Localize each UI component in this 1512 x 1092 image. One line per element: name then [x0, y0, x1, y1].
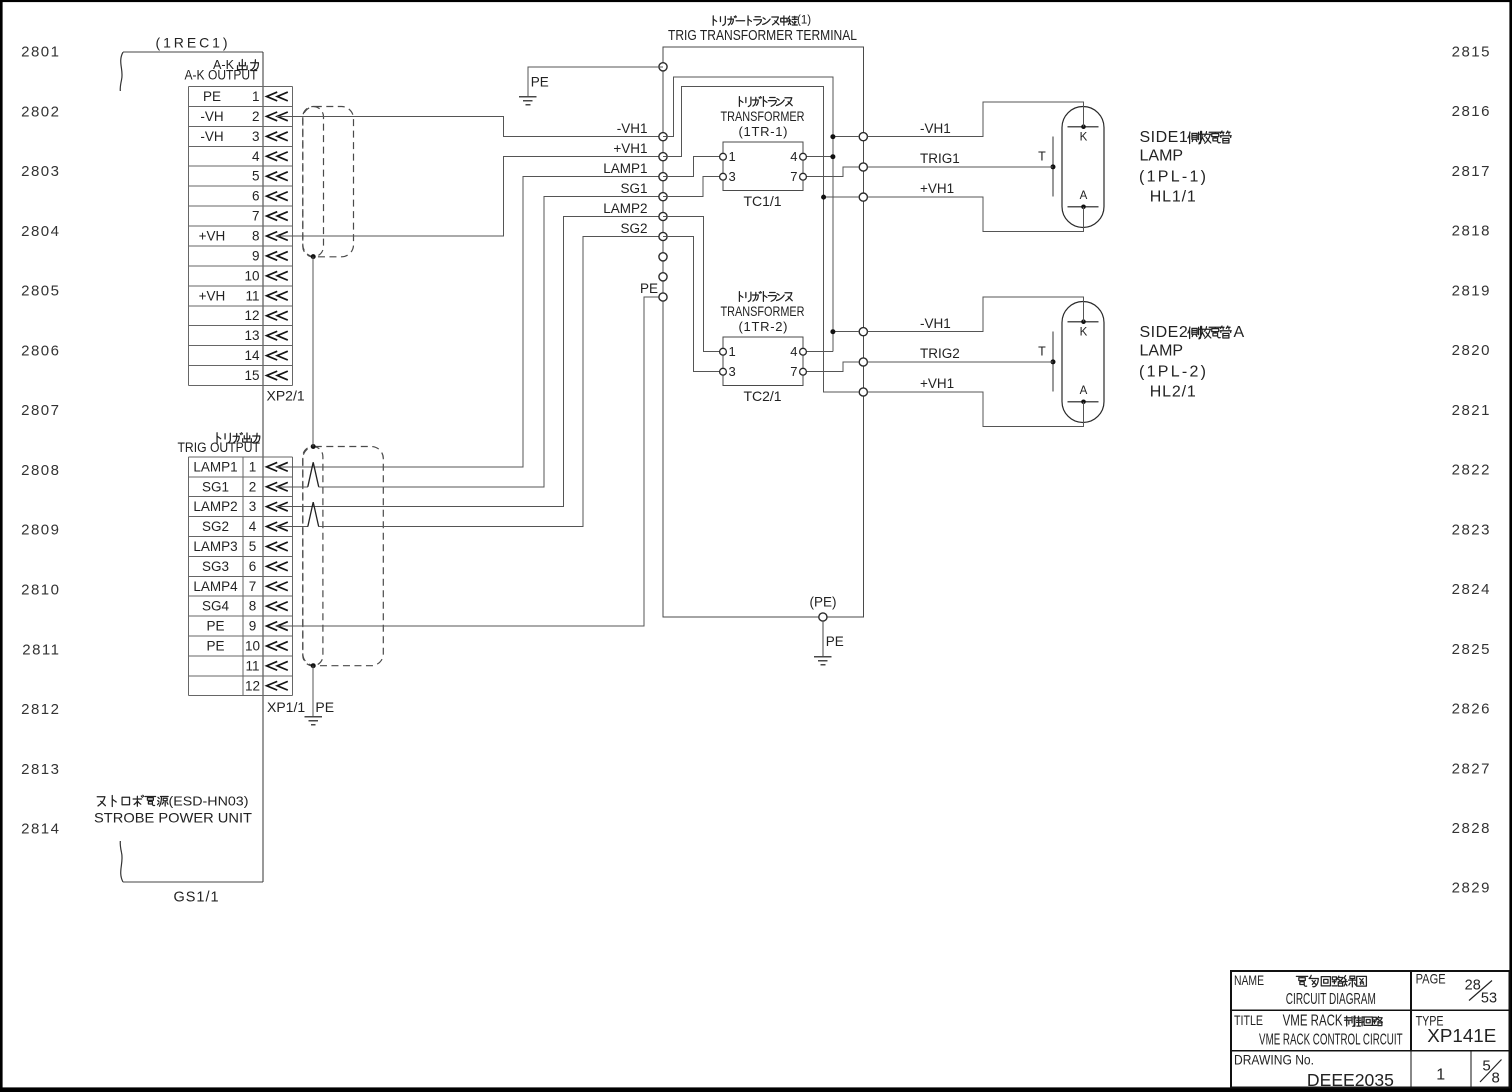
svg-text:2818: 2818	[1452, 223, 1491, 240]
wire TRIG1 (TC1 pin7 to terminal)	[807, 167, 860, 177]
svg-text:XP2/1: XP2/1	[267, 387, 305, 403]
svg-text:2804: 2804	[21, 223, 60, 240]
svg-text:11: 11	[245, 288, 259, 303]
svg-text:2802: 2802	[21, 103, 60, 120]
svg-text:LAMP2: LAMP2	[603, 201, 647, 216]
terminal SG1	[659, 193, 667, 201]
label: strobe power unit	[94, 794, 252, 906]
svg-text:T: T	[1038, 150, 1046, 164]
svg-text:PE: PE	[206, 638, 224, 653]
svg-text:2814: 2814	[21, 821, 60, 838]
wire +VH1 to lamp2 A	[867, 392, 1083, 427]
svg-text:2820: 2820	[1452, 342, 1491, 359]
svg-text:PAGE: PAGE	[1416, 971, 1446, 987]
terminal PE (lower)	[659, 293, 667, 301]
svg-text:9: 9	[249, 619, 257, 634]
wire shield drain	[312, 257, 314, 447]
transformer TC2/1 (1TR-2)	[721, 292, 805, 404]
transformer TC1/1 (1TR-1)	[721, 97, 805, 209]
svg-text:15: 15	[244, 368, 259, 383]
svg-text:2815: 2815	[1452, 44, 1491, 61]
wire TRIG2 (TC2 pin7 to terminal)	[807, 362, 860, 372]
terminal SG2	[659, 232, 667, 240]
junction -VH1/lamp1	[830, 134, 835, 139]
svg-text:SG4: SG4	[202, 599, 230, 614]
svg-text:PE: PE	[203, 89, 221, 104]
svg-text:+VH1: +VH1	[613, 141, 647, 156]
svg-text:(1TR-1): (1TR-1)	[739, 124, 788, 139]
svg-text:PE: PE	[315, 699, 334, 715]
label lamp2	[1139, 324, 1245, 400]
junction -VH1/lamp2	[830, 329, 835, 334]
terminal LAMP1	[659, 173, 667, 181]
svg-text:PE: PE	[206, 619, 224, 634]
svg-text:2826: 2826	[1452, 701, 1491, 718]
svg-text:TRIG OUTPUT: TRIG OUTPUT	[178, 440, 261, 455]
svg-text:XP1/1: XP1/1	[267, 699, 305, 715]
wire TRIG2 to lamp2 T	[867, 361, 1053, 363]
connector XP1/1 (TRIG OUTPUT)	[178, 433, 306, 715]
terminal block (TRIG TRANSFORMER TERMINAL)	[663, 15, 863, 617]
wire +VH1 to lamp1 A	[867, 197, 1083, 231]
pin 1 TC1	[720, 153, 727, 160]
svg-text:4: 4	[252, 149, 260, 164]
pin 3 TC2	[720, 368, 727, 375]
svg-text:STROBE POWER UNIT: STROBE POWER UNIT	[94, 810, 252, 826]
svg-text:TRIG1: TRIG1	[920, 151, 960, 166]
svg-text:(1PL-2): (1PL-2)	[1139, 363, 1206, 380]
terminal +VH1	[659, 153, 667, 161]
svg-text:A: A	[1080, 190, 1088, 202]
strobe power unit GS1/1 boundary (1REC1)	[120, 35, 263, 883]
svg-text:(1TR-2): (1TR-2)	[739, 319, 788, 334]
svg-text:2819: 2819	[1452, 282, 1491, 299]
svg-text:+VH: +VH	[199, 228, 226, 243]
svg-text:2812: 2812	[21, 701, 60, 718]
svg-text:LAMP3: LAMP3	[193, 539, 237, 554]
svg-text:11: 11	[245, 658, 259, 673]
cable shield W1 (XP2 cable)	[303, 107, 354, 260]
svg-text:VME RACK: VME RACK	[1283, 1013, 1343, 1030]
svg-text:TITLE: TITLE	[1234, 1012, 1263, 1028]
wire LAMP1 (XP1 pin1 to terminal)	[277, 177, 659, 467]
wire XP2 pin2 -VH to terminal	[277, 116, 659, 136]
svg-text:LAMP: LAMP	[1140, 343, 1184, 360]
wire LAMP2 (XP1 pin3 to terminal)	[277, 217, 659, 507]
wire XP2 pin8 +VH to terminal	[277, 157, 659, 236]
wire SG1 to TC1 pin3	[663, 177, 720, 197]
svg-text:2: 2	[249, 479, 257, 494]
svg-text:PE: PE	[531, 75, 549, 90]
terminal +VH1 right (lamp2)	[859, 388, 867, 396]
wire TRIG1 to lamp1 T	[867, 166, 1053, 168]
svg-text:PE: PE	[640, 281, 658, 296]
svg-text:12: 12	[245, 678, 260, 693]
wire PE (terminal block top)	[528, 67, 663, 97]
terminal -VH1 right (lamp2)	[859, 328, 867, 336]
terminal PE (top)	[659, 63, 667, 71]
svg-text:2821: 2821	[1452, 402, 1491, 419]
svg-text:4: 4	[249, 519, 257, 534]
svg-text:TRIG2: TRIG2	[920, 346, 960, 361]
svg-text:2803: 2803	[21, 163, 60, 180]
svg-text:TRANSFORMER: TRANSFORMER	[721, 303, 805, 319]
svg-text:2808: 2808	[21, 462, 60, 479]
svg-text:6: 6	[249, 559, 257, 574]
svg-text:(PE): (PE)	[810, 595, 837, 610]
junction +VH1/lamp1	[821, 195, 826, 200]
junction -VH1/TC1 pin4	[830, 154, 835, 159]
svg-text:7: 7	[249, 579, 257, 594]
svg-text:2827: 2827	[1452, 760, 1491, 777]
wire -VH1 to lamp1 K	[867, 102, 1083, 137]
wire LAMP1 to TC1 pin1	[663, 157, 720, 177]
svg-text:1: 1	[729, 149, 736, 164]
svg-text:5: 5	[249, 539, 257, 554]
terminal spare 1	[659, 253, 667, 261]
svg-text:-VH: -VH	[200, 109, 223, 124]
wire SG1 (XP1 pin2 to terminal) with twist mark	[277, 486, 308, 488]
svg-text:14: 14	[244, 348, 260, 363]
svg-text:10: 10	[244, 268, 259, 283]
svg-text:1: 1	[252, 89, 260, 104]
svg-text:9: 9	[252, 248, 260, 263]
svg-text:8: 8	[249, 599, 257, 614]
ground at terminal block top PE	[519, 97, 536, 105]
svg-text:2829: 2829	[1452, 880, 1491, 897]
terminal TRIG1 right	[859, 163, 867, 171]
svg-text:(1): (1)	[797, 15, 811, 27]
svg-text:7: 7	[790, 364, 797, 379]
wire +VH1 net	[663, 87, 859, 392]
svg-text:DEEE2035: DEEE2035	[1307, 1070, 1394, 1090]
svg-text:TC1/1: TC1/1	[743, 193, 781, 209]
svg-text:SG3: SG3	[202, 559, 229, 574]
svg-text:2817: 2817	[1452, 163, 1491, 180]
svg-text:2811: 2811	[22, 641, 60, 658]
svg-text:4: 4	[790, 344, 797, 359]
svg-text:SG2: SG2	[620, 221, 647, 236]
svg-text:SG2: SG2	[202, 519, 229, 534]
pin 3 TC1	[720, 173, 727, 180]
svg-text:HL2/1: HL2/1	[1150, 383, 1196, 400]
svg-text:53: 53	[1481, 990, 1497, 1006]
svg-text:K: K	[1080, 327, 1088, 339]
wire shield to ground	[312, 666, 314, 717]
svg-text:LAMP2: LAMP2	[193, 499, 237, 514]
ground at XP1 PE	[305, 717, 322, 725]
svg-text:NAME: NAME	[1234, 972, 1264, 988]
pin 7 TC2	[800, 368, 807, 375]
pin 4 TC1	[800, 153, 807, 160]
svg-text:12: 12	[244, 308, 259, 323]
svg-text:K: K	[1080, 132, 1088, 144]
svg-text:1: 1	[1436, 1066, 1445, 1083]
svg-text:PE: PE	[826, 634, 844, 649]
svg-text:(ESD-HN03): (ESD-HN03)	[169, 794, 249, 809]
svg-text:3: 3	[249, 499, 257, 514]
svg-text:28: 28	[1465, 978, 1481, 994]
wire PE (XP1 pin9 to terminal)	[277, 297, 659, 626]
svg-text:10: 10	[245, 638, 260, 653]
svg-text:2825: 2825	[1452, 641, 1491, 658]
terminal LAMP2	[659, 212, 667, 220]
connector XP2/1 (A-K OUTPUT)	[185, 58, 305, 404]
svg-text:2805: 2805	[21, 283, 60, 300]
svg-text:1: 1	[249, 459, 257, 474]
svg-text:-VH1: -VH1	[920, 316, 951, 331]
svg-text:3: 3	[252, 129, 260, 144]
title block	[1231, 971, 1509, 1090]
svg-text:2: 2	[252, 109, 260, 124]
svg-text:T: T	[1038, 345, 1046, 359]
terminal (PE) bottom	[819, 613, 827, 621]
svg-text:2822: 2822	[1452, 462, 1491, 479]
svg-text:8: 8	[1492, 1069, 1500, 1086]
svg-text:LAMP4: LAMP4	[193, 579, 238, 594]
svg-text:-VH: -VH	[200, 129, 223, 144]
svg-text:3: 3	[729, 364, 736, 379]
svg-text:CIRCUIT DIAGRAM: CIRCUIT DIAGRAM	[1286, 991, 1376, 1008]
svg-text:GS1/1: GS1/1	[173, 890, 219, 906]
pin 7 TC1	[800, 173, 807, 180]
svg-text:2816: 2816	[1452, 103, 1491, 120]
svg-text:7: 7	[790, 169, 797, 184]
svg-text:TC2/1: TC2/1	[743, 388, 781, 404]
pin 4 TC2	[800, 348, 807, 355]
svg-text:5: 5	[252, 169, 260, 184]
svg-text:LAMP: LAMP	[1140, 148, 1184, 165]
svg-text:A: A	[1234, 324, 1245, 341]
svg-text:3: 3	[729, 169, 736, 184]
svg-text:DRAWING No.: DRAWING No.	[1234, 1052, 1314, 1068]
svg-text:SG1: SG1	[620, 181, 647, 196]
svg-text:2828: 2828	[1452, 820, 1491, 837]
svg-text:HL1/1: HL1/1	[1150, 188, 1196, 205]
svg-text:TRIG TRANSFORMER TERMINAL: TRIG TRANSFORMER TERMINAL	[668, 28, 857, 44]
wire -VH1 net	[663, 77, 833, 352]
svg-text:SIDE1: SIDE1	[1140, 129, 1189, 146]
terminal +VH1 right (lamp1)	[859, 193, 867, 201]
svg-text:LAMP1: LAMP1	[193, 459, 237, 474]
svg-text:2806: 2806	[21, 342, 60, 359]
svg-text:(1PL-1): (1PL-1)	[1139, 168, 1206, 185]
wire SG2 (XP1 pin4 to terminal) with twist mark	[277, 526, 308, 528]
pin 1 TC2	[720, 348, 727, 355]
svg-text:+VH: +VH	[199, 288, 226, 303]
wire -VH1 to lamp2 K	[867, 297, 1083, 332]
label lamp1	[1139, 129, 1231, 205]
svg-text:LAMP1: LAMP1	[603, 161, 647, 176]
ground at terminal block	[814, 657, 831, 665]
cable shield W2 (XP1 cable)	[303, 444, 384, 668]
wire SG2 to TC2 pin3	[663, 237, 720, 372]
svg-text:2824: 2824	[1452, 581, 1491, 598]
svg-text:TRANSFORMER: TRANSFORMER	[721, 108, 805, 124]
svg-text:2810: 2810	[21, 582, 60, 599]
svg-text:7: 7	[252, 209, 260, 224]
svg-text:2801: 2801	[21, 44, 60, 61]
svg-text:(1REC1): (1REC1)	[156, 35, 228, 51]
terminal spare 2	[659, 273, 667, 281]
svg-text:A-K OUTPUT: A-K OUTPUT	[185, 68, 258, 83]
svg-text:-VH1: -VH1	[617, 121, 648, 136]
svg-text:SG1: SG1	[202, 479, 229, 494]
lamp HL2/1 (1PL-2)	[1038, 302, 1104, 423]
svg-text:XP141E: XP141E	[1427, 1026, 1496, 1046]
svg-text:VME RACK CONTROL CIRCUIT: VME RACK CONTROL CIRCUIT	[1259, 1031, 1403, 1048]
wire PE to ground (terminal block)	[822, 621, 824, 656]
svg-text:4: 4	[790, 149, 797, 164]
svg-text:2807: 2807	[21, 402, 60, 419]
svg-text:-VH1: -VH1	[920, 121, 951, 136]
svg-text:+VH1: +VH1	[920, 376, 954, 391]
svg-text:6: 6	[252, 189, 260, 204]
svg-text:+VH1: +VH1	[920, 181, 954, 196]
terminal -VH1	[659, 133, 667, 141]
svg-text:A: A	[1080, 385, 1088, 397]
svg-text:1: 1	[729, 344, 736, 359]
svg-text:2823: 2823	[1452, 521, 1491, 538]
svg-text:13: 13	[244, 328, 259, 343]
lamp HL1/1 (1PL-1)	[1038, 107, 1104, 228]
svg-text:8: 8	[252, 228, 260, 243]
svg-text:SIDE2: SIDE2	[1140, 324, 1189, 341]
svg-text:2809: 2809	[21, 522, 60, 539]
wire LAMP2 to TC2 pin1	[663, 217, 720, 352]
svg-text:2813: 2813	[21, 761, 60, 778]
terminal -VH1 right (lamp1)	[859, 133, 867, 141]
terminal TRIG2 right	[859, 358, 867, 366]
